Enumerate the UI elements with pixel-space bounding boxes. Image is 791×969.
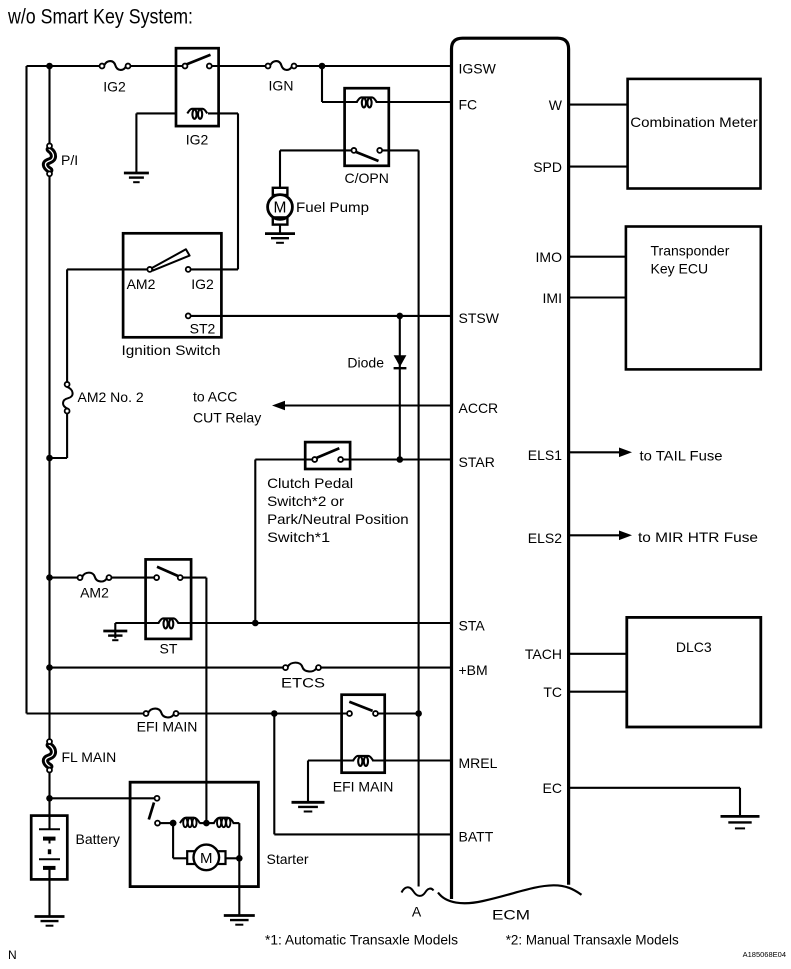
svg-text:BATT: BATT: [459, 829, 494, 845]
svg-text:AM2: AM2: [80, 585, 109, 601]
svg-text:Switch*1: Switch*1: [267, 529, 330, 545]
svg-text:STAR: STAR: [459, 454, 495, 470]
svg-text:A: A: [412, 904, 422, 920]
svg-text:ECM: ECM: [492, 907, 530, 923]
svg-text:DLC3: DLC3: [676, 639, 712, 655]
svg-text:TACH: TACH: [525, 646, 562, 662]
svg-text:to TAIL Fuse: to TAIL Fuse: [640, 447, 723, 463]
svg-text:M: M: [274, 200, 287, 217]
svg-text:P/I: P/I: [61, 152, 78, 168]
svg-text:N: N: [8, 948, 17, 962]
svg-text:IG2: IG2: [103, 79, 126, 95]
svg-text:ACCR: ACCR: [459, 400, 499, 416]
svg-text:Transponder: Transponder: [651, 243, 730, 259]
svg-text:ETCS: ETCS: [281, 675, 325, 691]
svg-text:EFI MAIN: EFI MAIN: [137, 719, 198, 735]
svg-text:w/o Smart Key System:: w/o Smart Key System:: [7, 5, 193, 28]
svg-text:to ACC: to ACC: [193, 389, 237, 405]
svg-text:IGSW: IGSW: [459, 60, 497, 76]
svg-text:IG2: IG2: [191, 276, 214, 292]
svg-text:M: M: [200, 850, 213, 867]
svg-text:Ignition Switch: Ignition Switch: [122, 342, 221, 358]
svg-text:Starter: Starter: [267, 851, 309, 867]
svg-text:EC: EC: [543, 780, 562, 796]
svg-text:ELS1: ELS1: [528, 447, 562, 463]
svg-text:STA: STA: [459, 617, 486, 633]
svg-text:IGN: IGN: [269, 78, 294, 94]
svg-text:+BM: +BM: [459, 662, 488, 678]
svg-text:Key ECU: Key ECU: [651, 261, 709, 277]
svg-text:W: W: [549, 97, 563, 113]
svg-text:to MIR HTR Fuse: to MIR HTR Fuse: [638, 529, 758, 545]
svg-text:AM2 No. 2: AM2 No. 2: [78, 389, 144, 405]
svg-text:Diode: Diode: [347, 355, 384, 371]
svg-text:FC: FC: [459, 96, 478, 112]
svg-text:Switch*2 or: Switch*2 or: [267, 493, 344, 509]
svg-text:IG2: IG2: [186, 132, 209, 148]
svg-text:ST: ST: [160, 641, 178, 657]
svg-text:*2: Manual Transaxle Models: *2: Manual Transaxle Models: [506, 932, 679, 948]
svg-text:Clutch Pedal: Clutch Pedal: [267, 475, 353, 491]
svg-text:MREL: MREL: [459, 755, 498, 771]
svg-text:STSW: STSW: [459, 310, 500, 326]
svg-text:ELS2: ELS2: [528, 530, 562, 546]
svg-text:Park/Neutral Position: Park/Neutral Position: [267, 511, 409, 527]
svg-text:C/OPN: C/OPN: [345, 170, 389, 186]
svg-text:CUT Relay: CUT Relay: [193, 410, 261, 426]
svg-text:Battery: Battery: [76, 831, 120, 847]
svg-text:A185068E04: A185068E04: [743, 950, 786, 959]
svg-text:IMI: IMI: [543, 290, 562, 306]
svg-text:FL MAIN: FL MAIN: [62, 749, 117, 765]
svg-text:SPD: SPD: [533, 159, 562, 175]
svg-text:IMO: IMO: [536, 249, 563, 265]
svg-text:ST2: ST2: [190, 321, 216, 337]
svg-text:Combination Meter: Combination Meter: [630, 114, 758, 130]
svg-text:Fuel Pump: Fuel Pump: [296, 199, 369, 215]
svg-text:AM2: AM2: [127, 276, 156, 292]
svg-text:EFI MAIN: EFI MAIN: [333, 779, 394, 795]
svg-text:TC: TC: [543, 684, 562, 700]
svg-text:*1: Automatic Transaxle Models: *1: Automatic Transaxle Models: [265, 932, 458, 948]
